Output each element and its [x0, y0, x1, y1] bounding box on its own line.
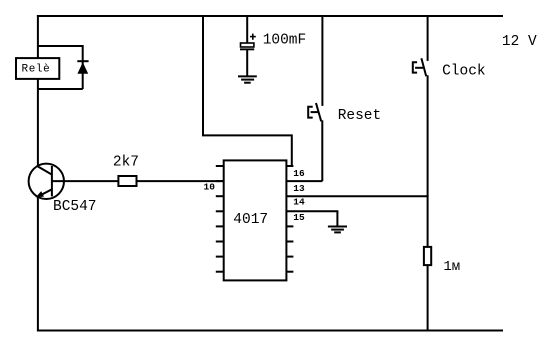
svg-text:BC547: BC547	[53, 199, 97, 215]
svg-text:13: 13	[293, 183, 305, 194]
svg-text:100mF: 100mF	[263, 33, 307, 49]
svg-text:Clock: Clock	[442, 64, 486, 80]
svg-text:1м: 1м	[443, 259, 460, 275]
svg-text:10: 10	[204, 182, 216, 193]
svg-text:15: 15	[293, 212, 305, 223]
svg-text:4017: 4017	[233, 212, 268, 228]
svg-text:2k7: 2k7	[113, 154, 139, 170]
svg-text:12 V: 12 V	[502, 34, 537, 50]
svg-text:Relè: Relè	[22, 64, 51, 76]
svg-text:16: 16	[293, 168, 305, 179]
svg-text:14: 14	[293, 197, 305, 208]
svg-text:Reset: Reset	[338, 108, 382, 124]
